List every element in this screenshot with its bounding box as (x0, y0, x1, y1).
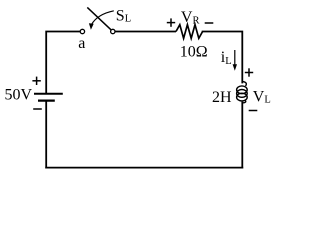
battery V1 positive plate (long) (34, 93, 63, 95)
wire: bottom return (46, 167, 242, 169)
wire: battery negative down to bottom-left corner (45, 101, 47, 168)
inductor plus sign (245, 68, 253, 76)
battery minus sign (33, 108, 42, 110)
switch SL right terminal (111, 29, 115, 33)
wire top-left: battery positive up to switch terminal a (46, 32, 80, 93)
svg-text:50V: 50V (5, 87, 33, 104)
svg-text:10Ω: 10Ω (180, 44, 208, 61)
switch SL blade (87, 7, 111, 29)
svg-text:VR: VR (181, 9, 200, 26)
wire: inductor bottom to bottom-right corner (241, 103, 243, 168)
resistor R 10ohm zigzag (176, 25, 203, 39)
svg-text:iL: iL (221, 49, 232, 67)
resistor minus sign (205, 22, 214, 24)
inductor L coil loops (237, 86, 248, 101)
svg-text:SL: SL (116, 7, 131, 24)
inductor minus sign (249, 110, 258, 112)
resistor plus sign (167, 18, 175, 26)
wire: resistor to top-right corner down to inductor (203, 32, 243, 83)
inductor L coil top lead (242, 82, 246, 87)
inductor L coil bottom lead (242, 100, 245, 103)
switch SL motion arrow from label, crossing blade (91, 11, 114, 25)
switch SL left terminal node a (80, 29, 84, 33)
battery plus sign (32, 77, 40, 85)
battery V1 negative plate (short) (38, 99, 55, 101)
current iL arrow (234, 50, 236, 65)
wire: switch right terminal to resistor (115, 31, 176, 33)
svg-text:VL: VL (253, 88, 271, 105)
svg-text:2H: 2H (212, 89, 232, 106)
svg-text:a: a (78, 35, 85, 52)
